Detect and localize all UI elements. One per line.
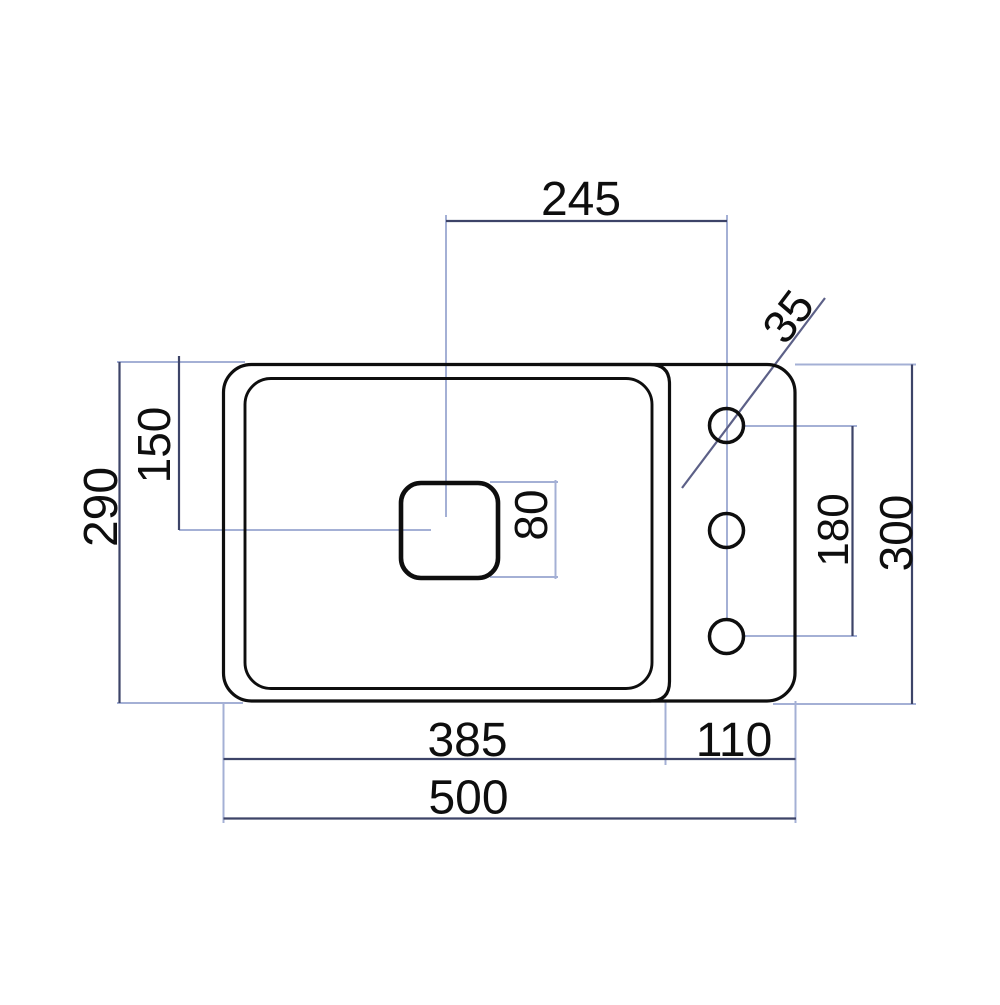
drain square (80)	[401, 483, 498, 578]
sink unit outline (500x300)	[224, 365, 796, 702]
extension line tap holes vertical	[726, 215, 728, 619]
dim 180 line	[851, 426, 853, 636]
dim 80 bracket bottom connector	[490, 576, 558, 578]
dim 245 line	[446, 220, 727, 222]
svg-text:245: 245	[541, 173, 621, 226]
dim 150 line	[178, 356, 180, 530]
dim 300 bottom connector	[773, 703, 916, 705]
svg-text:150: 150	[128, 407, 180, 484]
dim 80 bracket vertical	[555, 480, 557, 579]
svg-text:110: 110	[696, 714, 773, 767]
dim 300 top connector	[795, 364, 916, 366]
svg-text:80: 80	[505, 489, 557, 540]
dim 80 bracket top connector	[490, 481, 558, 483]
svg-text:290: 290	[75, 467, 128, 547]
dim 180 top connector	[744, 425, 857, 427]
svg-text:180: 180	[809, 493, 858, 566]
dim 500 line	[224, 817, 797, 819]
basin inner rim	[245, 379, 652, 689]
svg-text:385: 385	[427, 714, 507, 767]
extension line bottom right vertical	[795, 701, 797, 823]
dim 385/110 line	[224, 758, 796, 760]
extension line bottom left vertical	[223, 703, 225, 823]
svg-text:500: 500	[428, 772, 508, 825]
tap hole bottom	[710, 620, 744, 654]
dim 180 bottom connector	[744, 635, 857, 637]
extension line drain center vertical	[445, 215, 447, 517]
basin outer right edge	[540, 365, 670, 702]
svg-text:300: 300	[870, 495, 922, 572]
tap hole middle	[710, 514, 744, 548]
dim 300 line	[911, 365, 913, 705]
extension line basin right vertical	[665, 701, 667, 765]
leader line 35	[682, 298, 825, 488]
extension line bottom-left horizontal	[117, 702, 243, 704]
extension line top-left horizontal	[117, 361, 245, 363]
tap hole top	[710, 409, 744, 443]
extension line drain center horizontal	[179, 529, 431, 531]
dim 290 line	[118, 362, 120, 703]
